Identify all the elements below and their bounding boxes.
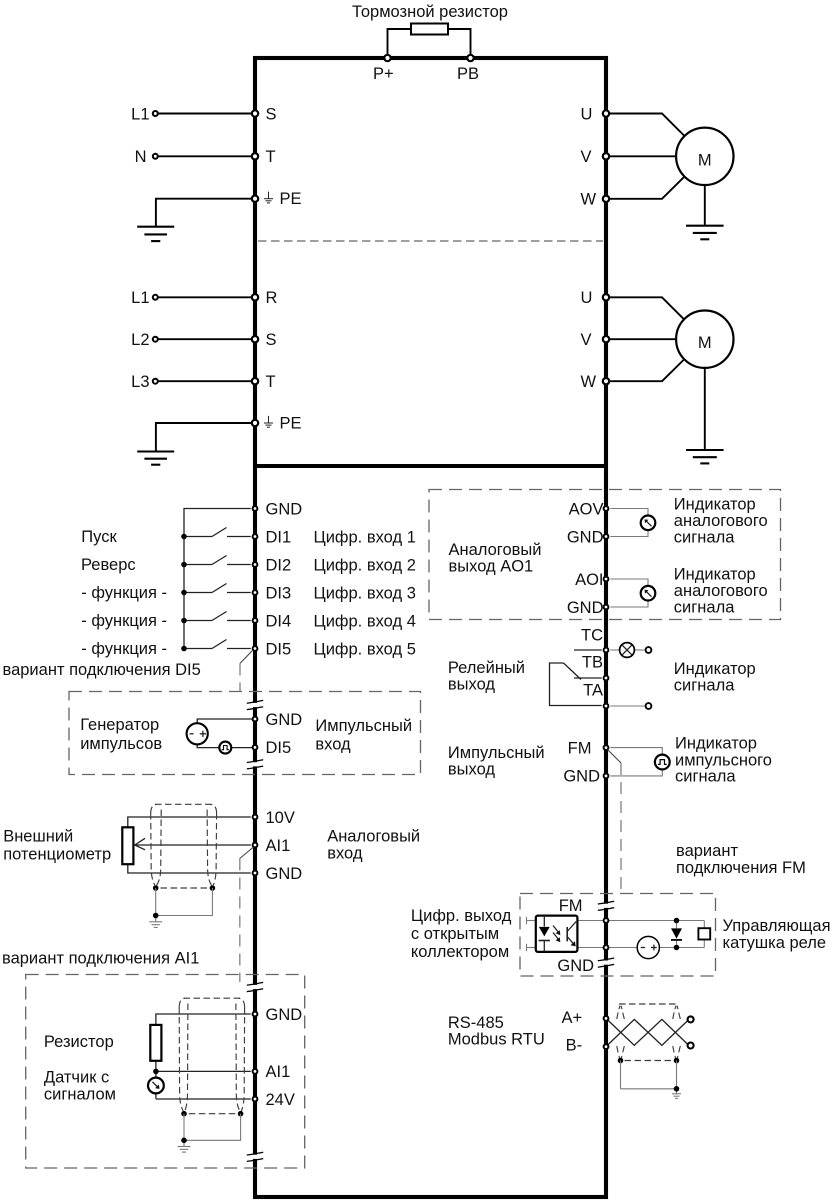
svg-text:выход: выход [448, 761, 496, 779]
svg-text:GND: GND [567, 599, 604, 617]
svg-text:PE: PE [280, 414, 302, 432]
svg-text:T: T [266, 373, 276, 391]
svg-text:выход: выход [448, 676, 496, 694]
svg-text:Пуск: Пуск [81, 528, 117, 546]
svg-text:TB: TB [582, 653, 603, 671]
svg-text:FM: FM [568, 739, 592, 757]
svg-text:PE: PE [280, 190, 302, 208]
svg-text:GND: GND [266, 1006, 303, 1024]
svg-text:U: U [581, 105, 593, 123]
svg-text:W: W [581, 191, 597, 209]
svg-text:Цифр. вход 1: Цифр. вход 1 [314, 528, 416, 546]
svg-text:10V: 10V [266, 809, 295, 827]
svg-text:вход: вход [327, 845, 363, 863]
svg-text:V: V [581, 331, 592, 349]
svg-text:GND: GND [557, 957, 594, 975]
svg-text:L2: L2 [131, 331, 149, 349]
svg-text:вход: вход [315, 736, 351, 754]
svg-text:Modbus RTU: Modbus RTU [448, 1031, 545, 1049]
svg-text:Реверс: Реверс [81, 556, 136, 574]
svg-text:аналогового: аналогового [674, 582, 768, 600]
svg-text:катушка реле: катушка реле [723, 934, 827, 952]
svg-text:аналогового: аналогового [674, 512, 768, 530]
svg-text:DI1: DI1 [266, 528, 292, 546]
svg-text:N: N [135, 148, 147, 166]
svg-text:TC: TC [581, 626, 603, 644]
svg-text:сигнала: сигнала [674, 599, 735, 617]
svg-text:вариант подключения AI1: вариант подключения AI1 [2, 950, 199, 968]
svg-text:Аналоговый: Аналоговый [449, 541, 542, 559]
svg-text:Генератор: Генератор [80, 716, 159, 734]
svg-text:L1: L1 [131, 105, 149, 123]
svg-text:коллектором: коллектором [411, 943, 509, 961]
svg-text:S: S [266, 331, 277, 349]
svg-text:FM: FM [559, 897, 583, 915]
svg-text:AI1: AI1 [266, 1063, 291, 1081]
svg-text:24V: 24V [266, 1091, 295, 1109]
svg-text:Управляющая: Управляющая [723, 917, 831, 935]
svg-text:B-: B- [566, 1037, 583, 1055]
svg-text:Импульсный: Импульсный [448, 744, 545, 762]
svg-text:выход AO1: выход AO1 [449, 558, 534, 576]
svg-text:импульсного: импульсного [675, 751, 772, 769]
svg-text:GND: GND [567, 528, 604, 546]
svg-text:TA: TA [583, 682, 603, 700]
svg-text:Цифр. выход: Цифр. выход [411, 907, 512, 925]
svg-text:DI2: DI2 [266, 556, 292, 574]
svg-text:сигналом: сигналом [44, 1086, 116, 1104]
svg-text:Цифр. вход 5: Цифр. вход 5 [314, 640, 416, 658]
svg-text:Индикатор: Индикатор [675, 735, 757, 753]
svg-text:Внешний: Внешний [3, 828, 73, 846]
svg-text:с открытым: с открытым [411, 925, 499, 943]
svg-text:DI4: DI4 [266, 612, 292, 630]
svg-text:Индикатор: Индикатор [674, 495, 756, 513]
svg-text:Релейный: Релейный [448, 659, 525, 677]
svg-text:L1: L1 [131, 289, 149, 307]
svg-text:сигнала: сигнала [675, 768, 736, 786]
svg-text:- функция -: - функция - [81, 640, 167, 658]
svg-text:S: S [266, 105, 277, 123]
svg-text:Индикатор: Индикатор [674, 565, 756, 583]
svg-text:PB: PB [457, 65, 479, 83]
svg-text:U: U [581, 289, 593, 307]
svg-text:Импульсный: Импульсный [315, 717, 412, 735]
svg-text:T: T [266, 148, 276, 166]
svg-text:импульсов: импульсов [80, 735, 162, 753]
svg-text:R: R [266, 289, 278, 307]
svg-text:GND: GND [266, 711, 303, 729]
svg-text:DI3: DI3 [266, 584, 292, 602]
svg-text:вариант подключения DI5: вариант подключения DI5 [3, 661, 201, 679]
svg-text:Цифр. вход 4: Цифр. вход 4 [314, 612, 416, 630]
svg-text:сигнала: сигнала [674, 676, 735, 694]
svg-text:Индикатор: Индикатор [674, 660, 756, 678]
svg-text:GND: GND [266, 865, 303, 883]
svg-text:потенциометр: потенциометр [3, 846, 111, 864]
svg-text:V: V [581, 148, 592, 166]
svg-text:Цифр. вход 2: Цифр. вход 2 [314, 556, 416, 574]
svg-text:RS-485: RS-485 [448, 1014, 504, 1032]
svg-text:подключения FM: подключения FM [676, 859, 806, 877]
svg-text:DI5: DI5 [266, 640, 292, 658]
svg-text:- функция -: - функция - [81, 612, 167, 630]
svg-text:GND: GND [563, 768, 600, 786]
svg-text:Тормозной резистор: Тормозной резистор [352, 3, 508, 21]
svg-text:L3: L3 [131, 373, 149, 391]
svg-text:DI5: DI5 [266, 739, 292, 757]
svg-text:W: W [581, 373, 597, 391]
svg-text:M: M [698, 151, 712, 169]
svg-text:Аналоговый: Аналоговый [327, 828, 420, 846]
svg-text:Цифр. вход 3: Цифр. вход 3 [314, 584, 416, 602]
svg-text:Датчик с: Датчик с [44, 1069, 109, 1087]
svg-text:A+: A+ [562, 1009, 583, 1027]
svg-text:сигнала: сигнала [674, 529, 735, 547]
svg-text:P+: P+ [373, 65, 394, 83]
svg-text:AOV: AOV [569, 500, 604, 518]
svg-text:AOI: AOI [575, 571, 603, 589]
svg-text:GND: GND [266, 500, 303, 518]
svg-text:- функция -: - функция - [81, 584, 167, 602]
svg-text:M: M [698, 334, 712, 352]
svg-text:Резистор: Резистор [44, 1033, 114, 1051]
svg-text:вариант: вариант [676, 842, 738, 860]
svg-text:AI1: AI1 [266, 837, 291, 855]
